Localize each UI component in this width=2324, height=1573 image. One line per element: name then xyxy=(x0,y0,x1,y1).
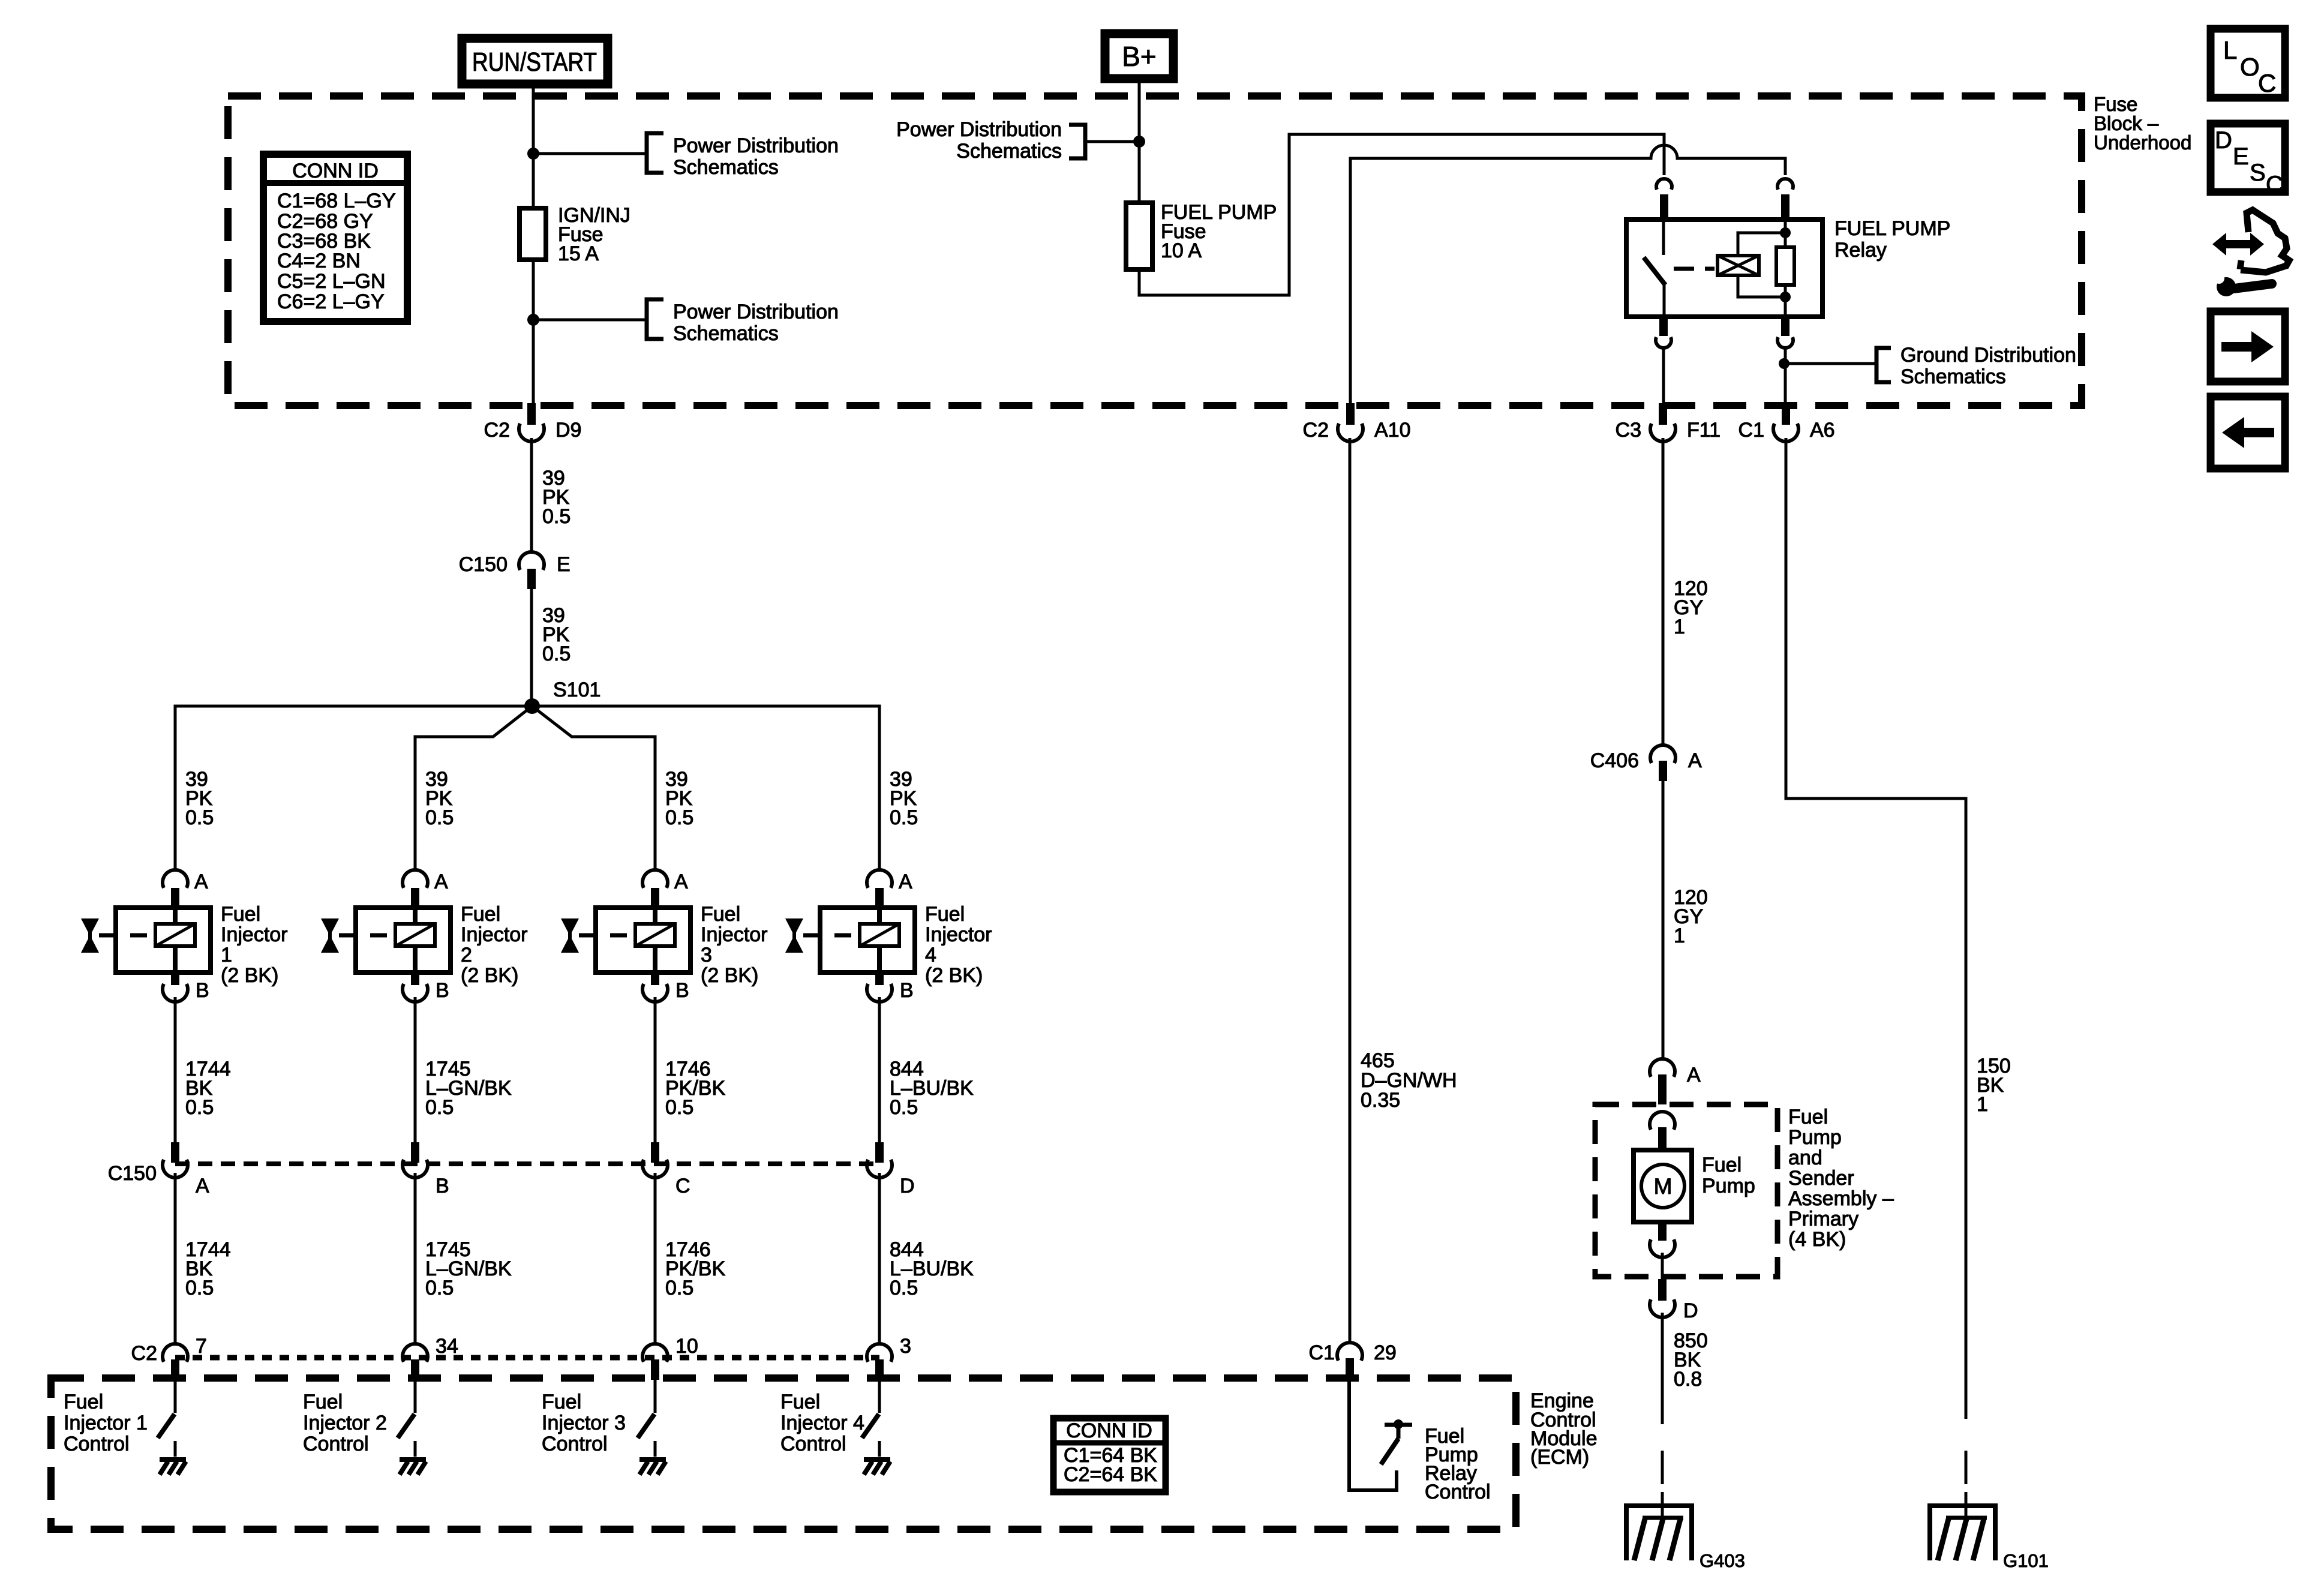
svg-text:Schematics: Schematics xyxy=(673,322,779,345)
svg-text:Injector: Injector xyxy=(221,923,288,946)
junction node ground distribution xyxy=(1779,358,1789,369)
wire C2 D9 to C150 E xyxy=(530,438,533,553)
svg-text:CONN ID: CONN ID xyxy=(1066,1419,1152,1442)
fuel injector 2 body xyxy=(356,908,451,972)
wire pin D to G403 xyxy=(1661,1313,1664,1424)
connector C406 pin A xyxy=(1590,745,1702,781)
fuel injector 2 pin B stub xyxy=(411,972,419,985)
fuel pump inner connector (bottom) xyxy=(1650,1222,1675,1257)
fuel pump inner connector (top) xyxy=(1650,1112,1675,1150)
connector C150 pin B xyxy=(403,1142,449,1197)
relay switch arm xyxy=(1644,257,1665,285)
wire IGN/INJ fuse down to fuse block edge xyxy=(532,260,535,404)
fuel injector 4 coil xyxy=(860,924,899,946)
svg-text:Fuel: Fuel xyxy=(780,1391,820,1413)
fuel injector 3 valve symbol xyxy=(561,918,579,953)
relay right pin internal wires xyxy=(1784,220,1787,247)
svg-text:10 A: 10 A xyxy=(1161,239,1202,262)
svg-text:F11: F11 xyxy=(1687,419,1721,442)
svg-text:B: B xyxy=(436,979,449,1002)
svg-text:0.5: 0.5 xyxy=(185,1277,214,1299)
svg-text:A: A xyxy=(899,870,912,893)
splice S101 xyxy=(524,698,540,714)
svg-text:0.5: 0.5 xyxy=(665,1096,693,1119)
svg-text:Assembly –: Assembly – xyxy=(1788,1187,1894,1210)
svg-text:2: 2 xyxy=(461,944,472,966)
relay switch lower contact xyxy=(1663,284,1666,317)
wire B+ down to FUEL PUMP fuse xyxy=(1138,79,1141,203)
svg-text:C2: C2 xyxy=(484,419,510,442)
svg-text:Schematics: Schematics xyxy=(1900,365,2006,388)
wire RUN/START down to IGN/INJ fuse xyxy=(532,84,535,208)
wire branch to power distribution (upper) xyxy=(533,152,647,155)
svg-text:0.5: 0.5 xyxy=(890,1096,918,1119)
svg-text:(2 BK): (2 BK) xyxy=(701,964,758,987)
svg-text:Injector 4: Injector 4 xyxy=(780,1412,864,1434)
svg-text:Injector 1: Injector 1 xyxy=(64,1412,148,1434)
fuel injector 4 pin B arc xyxy=(867,984,892,1002)
svg-text:C5=2 L–GN: C5=2 L–GN xyxy=(277,270,386,293)
fuse block underhood dashed box xyxy=(228,96,2082,406)
connector C150 pin C xyxy=(642,1142,690,1197)
svg-text:D9: D9 xyxy=(556,419,581,442)
bracket power distribution schematics (B+) xyxy=(896,118,1085,163)
svg-text:Power Distribution: Power Distribution xyxy=(896,118,1062,141)
svg-text:A6: A6 xyxy=(1810,419,1835,442)
fuel pump assembly dashed box xyxy=(1595,1104,1777,1277)
wire injector 4 pin B to C150 xyxy=(878,997,881,1142)
svg-text:Power Distribution: Power Distribution xyxy=(673,301,839,323)
svg-text:34: 34 xyxy=(436,1335,458,1358)
fuel injector 3 pin A arc xyxy=(642,870,668,888)
svg-text:Sender: Sender xyxy=(1788,1167,1854,1190)
svg-text:Fuel: Fuel xyxy=(925,903,965,926)
fuel injector 4 pin B stub xyxy=(875,972,884,985)
fuel injector 1 body xyxy=(116,908,211,972)
svg-text:0.5: 0.5 xyxy=(542,505,571,528)
svg-text:0.5: 0.5 xyxy=(425,806,454,829)
svg-text:1: 1 xyxy=(1977,1093,1988,1116)
wire relay coil feed with crossover hop to ECM drop xyxy=(1350,145,1785,404)
svg-text:G403: G403 xyxy=(1700,1550,1745,1571)
fuel injector 1 control driver xyxy=(158,1380,175,1457)
svg-text:(2 BK): (2 BK) xyxy=(461,964,518,987)
svg-text:B+: B+ xyxy=(1122,41,1157,72)
power feed B+ box xyxy=(1105,34,1173,79)
svg-text:Control: Control xyxy=(64,1433,130,1455)
engine control module dashed box xyxy=(51,1378,1516,1529)
fuel pump relay pin 86 arc (top right) xyxy=(1777,179,1793,190)
icon harness troubleshooting (arrow, outline, wrench) xyxy=(2212,210,2289,296)
svg-text:(2 BK): (2 BK) xyxy=(221,964,278,987)
connector ECM C2 pin 34 xyxy=(403,1335,458,1380)
relay pin 87 arc xyxy=(1656,337,1671,348)
svg-text:B: B xyxy=(675,979,689,1002)
svg-text:C3: C3 xyxy=(1616,419,1641,442)
svg-text:Injector 2: Injector 2 xyxy=(303,1412,387,1434)
svg-text:D: D xyxy=(2215,127,2232,154)
wire fuel pump to pin D xyxy=(1661,1253,1664,1279)
ECM connector dotted link xyxy=(175,1355,879,1361)
svg-text:29: 29 xyxy=(1374,1341,1397,1364)
fuel injector 3 control driver xyxy=(638,1380,655,1457)
svg-text:0.5: 0.5 xyxy=(185,1096,214,1119)
svg-text:Control: Control xyxy=(780,1433,846,1455)
svg-text:1: 1 xyxy=(221,944,232,966)
wire C150 B to ECM xyxy=(414,1173,417,1344)
svg-text:10: 10 xyxy=(675,1335,698,1358)
fuel pump relay pin 30 stub xyxy=(1660,194,1668,218)
svg-text:Fuel: Fuel xyxy=(542,1391,581,1413)
wire branch to power distribution (lower) xyxy=(533,319,647,322)
wire S101 to fuel injector 3 xyxy=(532,706,655,869)
icon forward arrow box xyxy=(2211,311,2285,382)
fuel injector 1 coil xyxy=(155,924,195,946)
wire relay pin 85 to fuse block edge xyxy=(1784,347,1787,404)
connector ECM C1 pin 29 xyxy=(1309,1341,1397,1380)
fuel injector 2 actuator dashed link xyxy=(339,933,392,938)
svg-text:1: 1 xyxy=(1674,924,1685,947)
svg-text:A10: A10 xyxy=(1374,419,1411,442)
fuel injector 4 valve symbol xyxy=(785,918,803,953)
CONN ID table (fuse block) xyxy=(263,154,407,322)
svg-text:C: C xyxy=(675,1175,690,1197)
svg-text:3: 3 xyxy=(701,944,712,966)
connector C150 pin A xyxy=(163,1142,209,1197)
svg-text:Fuel: Fuel xyxy=(701,903,740,926)
svg-text:C2: C2 xyxy=(1303,419,1329,442)
svg-text:(4 BK): (4 BK) xyxy=(1788,1228,1846,1251)
wire C150 C to ECM xyxy=(654,1173,657,1344)
svg-text:Control: Control xyxy=(303,1433,369,1455)
svg-text:C1: C1 xyxy=(1309,1341,1335,1364)
svg-text:Pump: Pump xyxy=(1788,1126,1842,1149)
svg-text:C1: C1 xyxy=(1739,419,1764,442)
svg-text:B: B xyxy=(196,979,209,1002)
svg-text:FUEL PUMP: FUEL PUMP xyxy=(1834,217,1950,240)
svg-text:0.5: 0.5 xyxy=(665,806,693,829)
junction node on B+ feed xyxy=(1133,136,1145,148)
relay coil connection wires xyxy=(1738,233,1785,256)
svg-text:Schematics: Schematics xyxy=(673,156,779,179)
fuel injector 2 pin A arc xyxy=(403,870,428,888)
svg-text:Relay: Relay xyxy=(1834,239,1887,262)
fuel injector 3 coil xyxy=(635,924,675,946)
svg-text:A: A xyxy=(196,1175,209,1197)
connector C1 A6 xyxy=(1739,403,1835,442)
svg-text:C150: C150 xyxy=(459,553,508,576)
svg-text:1: 1 xyxy=(1674,616,1685,638)
svg-text:Fuel: Fuel xyxy=(303,1391,343,1413)
wire S101 to fuel injector 2 xyxy=(415,706,532,869)
relay coil node (bottom) xyxy=(1780,292,1791,302)
svg-text:Primary: Primary xyxy=(1788,1208,1858,1230)
svg-text:D: D xyxy=(1683,1299,1698,1322)
svg-text:A: A xyxy=(194,870,208,893)
wire FUEL PUMP fuse to relay switch feed xyxy=(1139,134,1664,295)
svg-text:A: A xyxy=(434,870,448,893)
svg-text:C150: C150 xyxy=(108,1162,157,1185)
wire S101 to fuel injector 1 xyxy=(175,706,532,869)
svg-text:Control: Control xyxy=(542,1433,608,1455)
fuel injector 3 body xyxy=(596,908,690,972)
relay resistor xyxy=(1776,247,1794,285)
connector C2 A10 xyxy=(1303,403,1411,442)
junction node on RUN/START feed (lower) xyxy=(527,314,539,326)
fuel injector 2 pin A stub xyxy=(411,888,419,907)
CONN ID table (ECM) xyxy=(1053,1418,1166,1492)
svg-text:0.5: 0.5 xyxy=(890,1277,918,1299)
svg-text:0.5: 0.5 xyxy=(185,806,214,829)
fuel pump relay pin 30 arc (top left) xyxy=(1656,179,1672,190)
connector ECM C2 pin 7 xyxy=(163,1335,207,1380)
svg-text:C: C xyxy=(2266,172,2283,198)
svg-text:Fuel: Fuel xyxy=(221,903,260,926)
svg-text:Power Distribution: Power Distribution xyxy=(673,134,839,157)
svg-text:7: 7 xyxy=(196,1335,207,1358)
svg-text:Pump: Pump xyxy=(1702,1175,1755,1197)
svg-text:3: 3 xyxy=(900,1335,911,1358)
bracket power distribution schematics (lower) xyxy=(647,299,839,345)
junction node on RUN/START feed (upper) xyxy=(527,148,539,160)
svg-text:Injector: Injector xyxy=(461,923,528,946)
svg-text:4: 4 xyxy=(925,944,936,966)
svg-text:Fuel: Fuel xyxy=(64,1391,103,1413)
ground (injector 4 driver) xyxy=(864,1460,890,1475)
svg-text:Injector: Injector xyxy=(701,923,768,946)
svg-text:Fuel: Fuel xyxy=(1702,1154,1742,1176)
bracket ground distribution schematics xyxy=(1876,344,2076,388)
wire C406 to fuel pump assembly xyxy=(1662,781,1665,1058)
svg-text:S: S xyxy=(2250,160,2266,186)
connector fuel pump pin D xyxy=(1650,1279,1698,1322)
fuel injector 1 actuator dashed link xyxy=(99,933,152,938)
wire branch to power distribution (B+) xyxy=(1086,140,1139,143)
fuel injector 2 control driver xyxy=(398,1380,415,1457)
svg-text:0.5: 0.5 xyxy=(890,806,918,829)
svg-text:C6=2 L–GY: C6=2 L–GY xyxy=(277,290,385,313)
fuel injector 4 body xyxy=(820,908,915,972)
svg-text:C: C xyxy=(2258,69,2276,97)
fuel injector 4 pin A arc xyxy=(867,870,892,888)
fuel injector 1 pin A arc xyxy=(163,870,188,888)
fuel pump motor xyxy=(1634,1150,1692,1222)
svg-text:C2=64 BK: C2=64 BK xyxy=(1064,1463,1157,1486)
ground G403 xyxy=(1626,1506,1745,1571)
connector C150 pin D xyxy=(867,1142,915,1197)
connector C150 E xyxy=(459,552,571,589)
svg-text:15 A: 15 A xyxy=(558,242,599,265)
svg-text:0.5: 0.5 xyxy=(425,1096,454,1119)
fuel pump relay control driver xyxy=(1381,1419,1412,1464)
svg-text:Injector: Injector xyxy=(925,923,992,946)
svg-text:A: A xyxy=(1687,1064,1701,1086)
wire C2 A10 to ECM C1 29 xyxy=(1349,438,1352,1343)
fuel injector 1 valve symbol xyxy=(81,918,99,953)
svg-text:Fuel: Fuel xyxy=(1788,1106,1828,1128)
svg-text:L: L xyxy=(2223,36,2237,64)
svg-text:C4=2 BN: C4=2 BN xyxy=(277,250,361,272)
relay pin 85 arc xyxy=(1777,337,1793,348)
connector ECM C2 pin 10 xyxy=(642,1335,698,1380)
svg-text:G101: G101 xyxy=(2003,1550,2049,1571)
wire C1 A6 to G101 xyxy=(1786,438,1966,1419)
svg-text:0.8: 0.8 xyxy=(1674,1368,1702,1391)
fuse FUEL PUMP 10A xyxy=(1126,201,1277,269)
svg-text:Underhood: Underhood xyxy=(2094,131,2191,154)
svg-text:M: M xyxy=(1654,1174,1673,1199)
svg-text:C1=68 L–GY: C1=68 L–GY xyxy=(277,190,396,212)
icon back arrow box xyxy=(2211,397,2285,469)
fuel injector 4 pin A stub xyxy=(875,888,884,907)
fuel injector 2 coil xyxy=(395,924,435,946)
svg-text:D: D xyxy=(900,1175,915,1197)
ground (injector 1 driver) xyxy=(160,1460,186,1475)
svg-text:0.5: 0.5 xyxy=(665,1277,693,1299)
relay coil node (top) xyxy=(1780,227,1791,238)
svg-text:(ECM): (ECM) xyxy=(1530,1446,1589,1469)
icon LOC box xyxy=(2211,29,2285,98)
svg-text:B: B xyxy=(900,979,914,1002)
wire S101 to fuel injector 4 xyxy=(532,706,879,869)
connector ECM C2 pin 3 xyxy=(867,1335,911,1380)
fuel pump relay pin 86 stub xyxy=(1781,194,1789,218)
svg-text:0.5: 0.5 xyxy=(425,1277,454,1299)
svg-text:O: O xyxy=(2240,53,2260,81)
fuel injector 3 actuator dashed link xyxy=(579,933,632,938)
svg-text:A: A xyxy=(1688,749,1702,772)
wire C150 E to S101 xyxy=(530,589,533,706)
relay pin 85 stub (bottom right) xyxy=(1781,317,1789,336)
bracket power distribution schematics (upper) xyxy=(647,133,839,179)
fuel injector 4 actuator dashed link xyxy=(803,933,857,938)
svg-text:0.5: 0.5 xyxy=(542,643,571,665)
C150 inline connector dashed link xyxy=(175,1161,879,1166)
wire C150 A to ECM xyxy=(174,1173,177,1344)
wire injector 1 pin B to C150 xyxy=(174,997,177,1142)
fuel injector 3 pin B arc xyxy=(642,984,668,1002)
svg-text:and: and xyxy=(1788,1146,1822,1169)
wire relay pin 87 to fuse block edge xyxy=(1662,347,1665,404)
wire branch to ground distribution xyxy=(1784,362,1876,365)
svg-text:E: E xyxy=(557,553,571,576)
svg-text:Schematics: Schematics xyxy=(956,140,1062,163)
relay switch fixed contact xyxy=(1662,220,1665,255)
ground (injector 2 driver) xyxy=(400,1460,426,1475)
relay pin 87 stub (bottom left) xyxy=(1659,317,1668,336)
wire C1 29 to relay control driver xyxy=(1349,1380,1397,1490)
wire injector 2 pin B to C150 xyxy=(414,997,417,1142)
connector C2 D9 xyxy=(484,403,582,442)
fuse IGN/INJ 15A xyxy=(520,204,630,265)
wire injector 3 pin B to C150 xyxy=(654,997,657,1142)
fuel injector 3 pin A stub xyxy=(651,888,659,907)
svg-text:Ground Distribution: Ground Distribution xyxy=(1900,344,2076,367)
fuel injector 4 control driver xyxy=(862,1380,879,1457)
svg-text:Injector 3: Injector 3 xyxy=(542,1412,626,1434)
fuel injector 1 pin B stub xyxy=(171,972,179,985)
ground G101 xyxy=(1930,1506,2049,1571)
fuel injector 2 pin B arc xyxy=(403,984,428,1002)
svg-text:RUN/START: RUN/START xyxy=(472,47,597,77)
svg-text:E: E xyxy=(2233,143,2249,170)
ground (injector 3 driver) xyxy=(639,1460,666,1475)
svg-text:C406: C406 xyxy=(1590,749,1639,772)
svg-text:Control: Control xyxy=(1425,1481,1491,1503)
svg-text:Fuel: Fuel xyxy=(461,903,500,926)
fuel injector 2 valve symbol xyxy=(321,918,339,953)
svg-text:A: A xyxy=(674,870,688,893)
svg-text:0.35: 0.35 xyxy=(1361,1089,1400,1112)
wire C3 F11 to C406 xyxy=(1662,438,1665,745)
svg-text:C2: C2 xyxy=(131,1342,157,1365)
power feed RUN/START box xyxy=(462,38,608,84)
relay coil box with X xyxy=(1718,256,1759,275)
svg-text:B: B xyxy=(436,1175,449,1197)
fuel pump relay box xyxy=(1626,220,1822,317)
connector fuel pump pin A xyxy=(1650,1059,1701,1104)
fuel injector 1 pin B arc xyxy=(163,984,188,1002)
connector C3 F11 xyxy=(1616,403,1721,442)
fuel injector 3 pin B stub xyxy=(651,972,659,985)
relay actuator dashed link xyxy=(1674,267,1715,271)
svg-text:CONN ID: CONN ID xyxy=(292,160,379,182)
icon DESC box xyxy=(2211,124,2285,198)
fuel injector 1 pin A stub xyxy=(171,888,179,907)
svg-text:S101: S101 xyxy=(553,679,600,701)
svg-text:(2 BK): (2 BK) xyxy=(925,964,983,987)
wire C150 D to ECM xyxy=(878,1173,881,1344)
